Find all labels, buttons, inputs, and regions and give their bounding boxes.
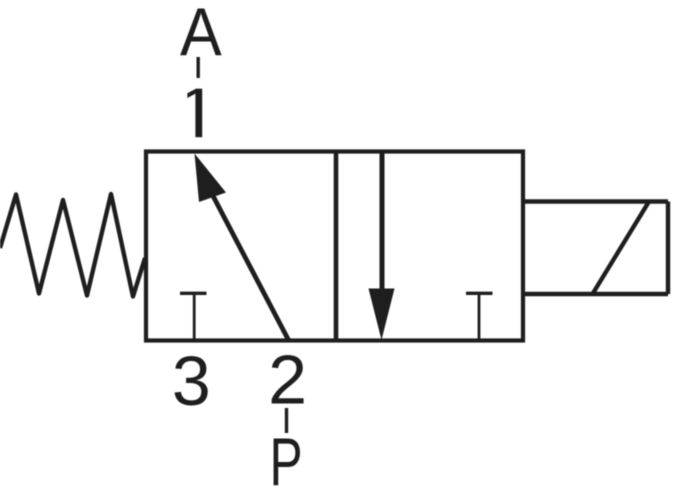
solenoid top edge	[523, 199, 668, 203]
port P label stub	[285, 408, 288, 433]
port label 1 (custom glyph: stem)	[195, 89, 202, 138]
flow path arrow shaft (left box, 2 to 1)	[212, 194, 289, 341]
solenoid right edge	[666, 202, 670, 295]
valve position divider	[334, 152, 339, 341]
down arrowhead (right box)	[369, 289, 395, 341]
svg-text:P: P	[270, 424, 303, 500]
solenoid bottom edge	[523, 292, 668, 296]
flow path arrowhead (left box)	[195, 154, 227, 203]
port A label stub	[196, 57, 199, 78]
blocked port 3 bar	[180, 292, 207, 295]
valve body outer box	[146, 152, 523, 341]
blocked port 3 stem	[193, 293, 196, 339]
blocked port stem (right box)	[478, 293, 481, 339]
svg-text:3: 3	[172, 342, 211, 420]
down arrow shaft (right box)	[380, 153, 385, 300]
svg-text:A: A	[180, 0, 222, 70]
port label 1 (custom glyph: flag)	[187, 89, 196, 98]
svg-text:2: 2	[268, 341, 307, 419]
solenoid diagonal	[593, 202, 650, 295]
blocked port bar (right box)	[466, 292, 493, 295]
spring return	[0, 194, 145, 297]
